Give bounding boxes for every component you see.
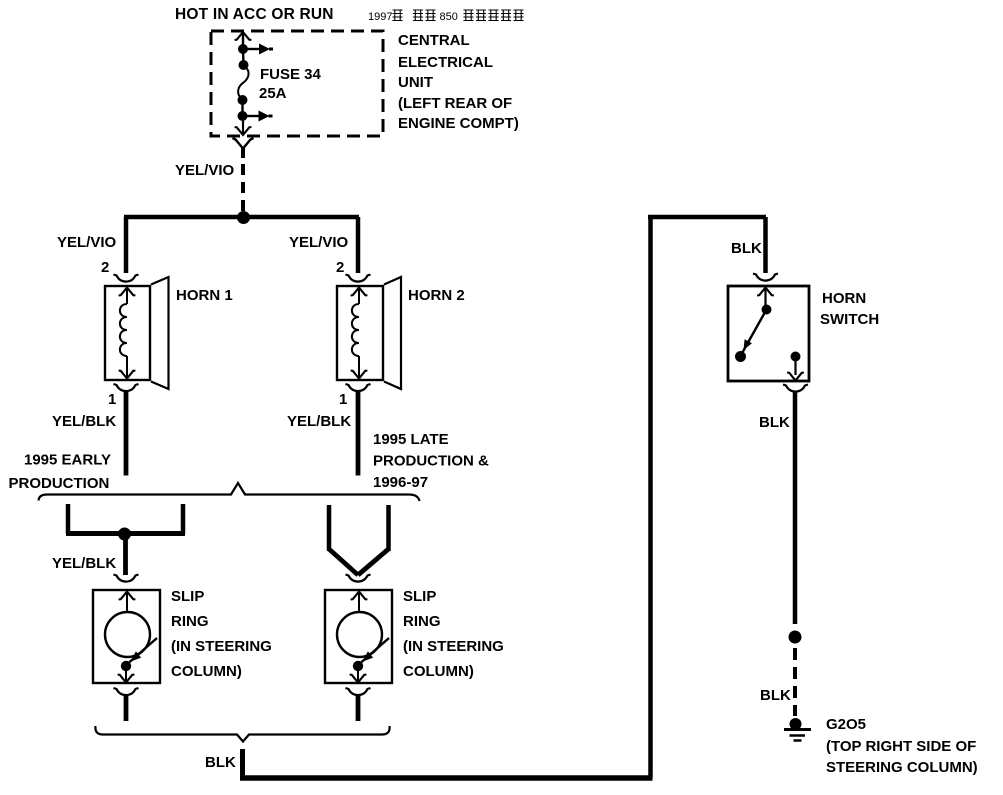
central electrical unit dashed box	[211, 31, 383, 136]
horn 2 internal wire	[358, 288, 360, 305]
slip ring 2 internal arrow up	[351, 592, 368, 600]
horn switch connector top	[753, 274, 778, 281]
svg-text:1995 EARLY: 1995 EARLY	[24, 452, 111, 469]
SECTION: production labels and braces	[9, 431, 490, 575]
svg-text:BLK: BLK	[205, 754, 236, 771]
late production funnel right leg	[386, 505, 391, 551]
slip ring 2 contact dot	[353, 661, 363, 671]
junction node on bracket	[118, 528, 131, 541]
slip ring 1 box	[93, 590, 160, 683]
SECTION: bottom wires	[95, 726, 652, 778]
switch internal arrow down	[787, 373, 804, 381]
junction dot above ground	[789, 631, 802, 644]
wire right drop	[356, 217, 361, 273]
svg-text:SWITCH: SWITCH	[820, 311, 879, 328]
slip ring 1 wiper	[129, 638, 157, 663]
svg-text:1: 1	[339, 391, 347, 408]
slip ring 1 connector bottom	[114, 688, 139, 695]
horn 2 body box	[337, 286, 383, 380]
wire from contact down	[794, 357, 796, 376]
svg-text:CENTRAL: CENTRAL	[398, 32, 470, 49]
slip ring 1 contact dot	[121, 661, 131, 671]
wire horn2 down	[356, 391, 361, 476]
horn 1 connector top	[114, 275, 139, 282]
svg-text:COLUMN): COLUMN)	[171, 663, 242, 680]
horn 2 speaker trapezoid	[384, 277, 401, 389]
svg-text:HOT IN ACC OR RUN: HOT IN ACC OR RUN	[175, 6, 334, 23]
node dot 1	[238, 44, 248, 54]
SECTION: horns	[52, 275, 465, 476]
wire stub	[241, 148, 245, 158]
main horizontal wire	[124, 215, 359, 220]
switch internal wire	[764, 288, 766, 307]
svg-text:ENGINE COMPT): ENGINE COMPT)	[398, 115, 519, 132]
slip ring 1 ring circle	[105, 612, 150, 657]
early production bracket left leg	[66, 504, 71, 534]
svg-text:25A: 25A	[259, 85, 287, 102]
svg-text:850: 850	[440, 11, 458, 23]
CJK char 路	[501, 10, 511, 21]
horn 2 connector bottom	[346, 384, 371, 391]
wire horn1 to bracket	[124, 391, 129, 476]
svg-text:FUSE 34: FUSE 34	[260, 66, 322, 83]
wire from bracket down	[123, 534, 128, 575]
switch internal arrow up	[757, 288, 774, 296]
late production funnel left leg	[327, 505, 332, 551]
slip ring 2 connector bottom	[346, 688, 371, 695]
wire down to box edge	[242, 116, 244, 134]
switch fixed contact dot	[791, 352, 801, 362]
slip ring 2 ring circle	[337, 612, 382, 657]
SECTION: main bus	[57, 211, 359, 276]
CJK char 电	[489, 10, 499, 21]
wire from brace down	[240, 749, 245, 778]
arrow out of box bottom	[235, 127, 252, 135]
dashed wire YEL/VIO down to junction	[241, 164, 245, 213]
svg-text:STEERING COLUMN): STEERING COLUMN)	[826, 759, 978, 776]
wire below slip ring 2	[356, 695, 361, 721]
right loop vertical wire	[648, 215, 653, 778]
wire below switch	[793, 391, 798, 624]
svg-text:YEL/BLK: YEL/BLK	[52, 413, 116, 430]
horn 1 connector bottom	[114, 384, 139, 391]
svg-text:UNIT: UNIT	[398, 74, 433, 91]
wire dot3-dot4	[241, 100, 243, 116]
horn 1 coil	[120, 304, 127, 356]
svg-text:G2O5: G2O5	[826, 716, 866, 733]
svg-text:COLUMN): COLUMN)	[403, 663, 474, 680]
svg-text:YEL/VIO: YEL/VIO	[57, 234, 117, 251]
switch pivot dot	[762, 305, 772, 315]
CJK char 富	[413, 10, 423, 21]
CJK char 图	[514, 10, 524, 21]
branch arrow right at node 4	[243, 111, 273, 122]
horn 2 internal arrow down	[351, 371, 368, 379]
slip ring 1 internal arrow up	[119, 592, 136, 600]
wire	[242, 32, 244, 49]
SECTION: slip rings	[93, 575, 504, 722]
slip ring 1 connector top	[114, 575, 139, 582]
svg-text:RING: RING	[403, 613, 441, 630]
svg-text:BLK: BLK	[760, 687, 791, 704]
CJK char 年	[393, 10, 403, 21]
slip ring 2 wiper	[361, 638, 389, 663]
right loop top horizontal wire	[648, 215, 766, 220]
svg-text:HORN 2: HORN 2	[408, 287, 465, 304]
wire dot1-dot2	[242, 49, 245, 65]
svg-text:1996-97: 1996-97	[373, 474, 428, 491]
svg-text:BLK: BLK	[731, 240, 762, 257]
horn 2 connector top	[346, 275, 371, 282]
svg-text:YEL/VIO: YEL/VIO	[175, 162, 235, 179]
horn 1 internal wire lower	[126, 356, 128, 378]
slip ring 2 arrow down	[357, 666, 359, 682]
svg-text:(IN STEERING: (IN STEERING	[171, 638, 272, 655]
switch blade diagonal	[741, 310, 767, 356]
svg-text:ELECTRICAL: ELECTRICAL	[398, 54, 493, 71]
svg-text:HORN: HORN	[822, 290, 866, 307]
dashed wire to ground	[793, 648, 797, 716]
SECTION: header	[175, 6, 524, 23]
CJK char 豪	[426, 10, 436, 21]
arrow into box top	[235, 32, 252, 40]
svg-text:YEL/BLK: YEL/BLK	[287, 413, 351, 430]
slip ring 2 wiper arrowhead	[363, 651, 373, 661]
bottom brace	[95, 726, 389, 742]
branch arrow right at node 1	[243, 44, 273, 55]
horn 2 internal wire lower	[358, 356, 360, 378]
slip ring 2 internal wire	[358, 592, 360, 613]
svg-text:(TOP RIGHT SIDE OF: (TOP RIGHT SIDE OF	[826, 738, 976, 755]
node dot 2	[239, 60, 249, 70]
bottom horizontal wire	[240, 775, 653, 781]
svg-text:YEL/VIO: YEL/VIO	[289, 234, 349, 251]
svg-text:PRODUCTION: PRODUCTION	[9, 475, 110, 492]
svg-text:SLIP: SLIP	[403, 588, 436, 605]
slip ring 1 arrow down	[125, 666, 127, 682]
top brace	[39, 483, 420, 501]
svg-text:(IN STEERING: (IN STEERING	[403, 638, 504, 655]
svg-text:BLK: BLK	[759, 414, 790, 431]
horn 1 body box	[105, 286, 150, 380]
SECTION: right side switch	[648, 215, 978, 778]
slip ring 2 connector top	[346, 575, 371, 582]
switch blade arrowhead	[744, 339, 753, 350]
svg-text:2: 2	[336, 259, 344, 276]
svg-text:RING: RING	[171, 613, 209, 630]
wire below slip ring 1	[124, 695, 129, 721]
wire left drop	[124, 217, 129, 273]
wire down to horn switch	[763, 217, 768, 273]
connector receptacle below box	[233, 138, 254, 149]
junction node	[237, 211, 250, 224]
svg-text:PRODUCTION &: PRODUCTION &	[373, 453, 489, 470]
horn 1 internal wire	[126, 288, 128, 305]
node dot 3	[238, 95, 248, 105]
early production bracket right leg	[181, 504, 186, 534]
horn 1 internal arrow down	[119, 371, 136, 379]
switch blade end dot	[735, 351, 746, 362]
svg-text:2: 2	[101, 259, 109, 276]
horn 1 speaker trapezoid	[151, 277, 169, 389]
svg-text:1: 1	[108, 391, 116, 408]
funnel converging wires	[329, 549, 389, 575]
svg-text:SLIP: SLIP	[171, 588, 204, 605]
horn 2 internal arrow up	[351, 288, 368, 296]
svg-text:HORN 1: HORN 1	[176, 287, 233, 304]
slip ring 1 wiper arrowhead	[131, 651, 141, 661]
SECTION: fuse box	[175, 31, 519, 213]
svg-text:YEL/BLK: YEL/BLK	[52, 555, 116, 572]
horn 2 coil	[352, 304, 359, 356]
svg-text:1997: 1997	[368, 11, 392, 23]
early production bracket bottom	[66, 531, 185, 536]
slip ring 1 internal wire	[126, 592, 128, 613]
slip ring 2 box	[325, 590, 392, 683]
ground G205	[790, 718, 802, 730]
node dot 4	[238, 111, 248, 121]
CJK char 喇	[464, 10, 474, 21]
horn switch connector bottom	[783, 385, 808, 392]
svg-text:(LEFT REAR OF: (LEFT REAR OF	[398, 95, 512, 112]
horn switch box	[728, 286, 809, 381]
fuse 34 element (S-curve)	[238, 66, 248, 99]
CJK char 叭	[476, 10, 486, 21]
horn 1 internal arrow up	[119, 288, 136, 296]
svg-text:1995 LATE: 1995 LATE	[373, 431, 449, 448]
